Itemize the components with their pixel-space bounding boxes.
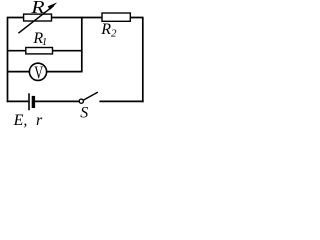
- wire bottom middle segment: [35, 100, 80, 102]
- resistor R2: [102, 13, 130, 21]
- wire bottom right segment: [99, 100, 143, 102]
- battery short thick plate: [32, 96, 35, 108]
- arrow of variable resistor: [18, 2, 57, 33]
- wire top horizontal y=17.5: [8, 17, 143, 19]
- wire bottom left segment: [7, 100, 29, 102]
- resistor R (variable, rheostat body): [24, 14, 52, 21]
- svg-text:E,: E,: [13, 112, 28, 129]
- wire left bus x=7.5: [7, 17, 9, 103]
- wire right bus x=142.8: [142, 17, 144, 103]
- resistor R1: [26, 48, 53, 54]
- svg-text:r: r: [36, 112, 43, 129]
- svg-text:V: V: [34, 63, 43, 83]
- wire R1 branch y=50.7: [8, 50, 82, 52]
- svg-text:S: S: [80, 105, 88, 122]
- wire middle bus x=81.8: [81, 17, 83, 73]
- switch S pivot circle: [79, 99, 83, 103]
- svg-text:R: R: [30, 0, 44, 18]
- switch blade: [83, 92, 98, 100]
- wire voltmeter branch y=71.6: [8, 71, 82, 73]
- voltmeter V: [29, 63, 46, 80]
- battery E,r long plate: [28, 93, 30, 110]
